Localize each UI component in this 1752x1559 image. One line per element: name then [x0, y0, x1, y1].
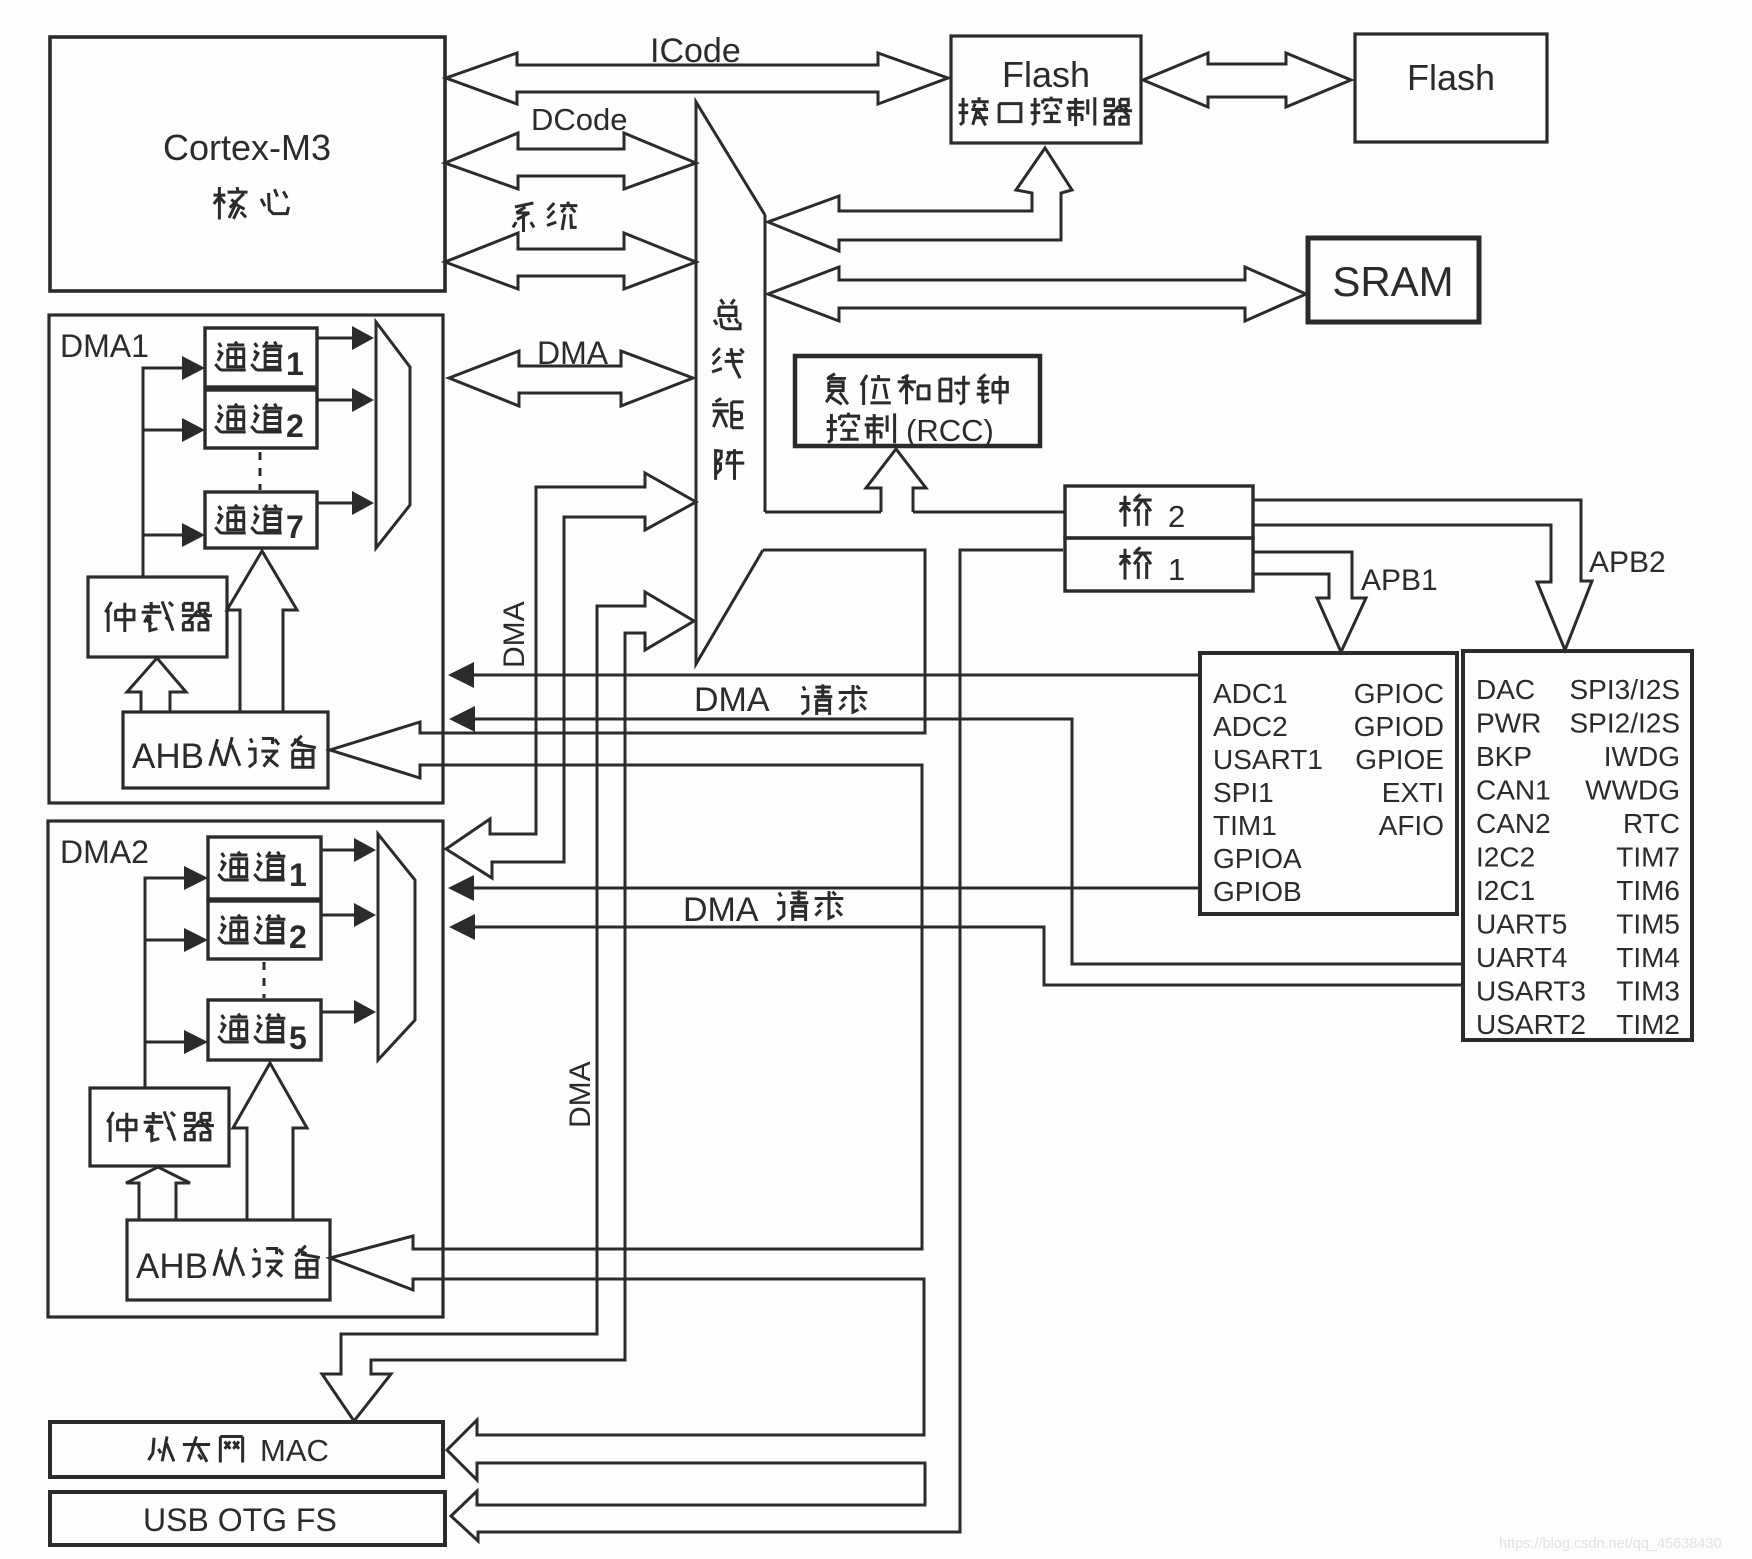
svg-text:UART5: UART5: [1476, 909, 1567, 940]
svg-text:DMA: DMA: [537, 335, 609, 371]
svg-text:USART2: USART2: [1476, 1009, 1586, 1040]
svg-text:Cortex-M3: Cortex-M3: [163, 127, 331, 168]
svg-text:AHB: AHB: [132, 737, 204, 776]
block DMA2 channel2: [208, 901, 321, 959]
svg-text:GPIOD: GPIOD: [1354, 711, 1444, 742]
block Ethernet MAC: [50, 1422, 443, 1477]
svg-text:DMA: DMA: [564, 1061, 597, 1128]
arrow to RCC: [866, 449, 926, 512]
bus arrow DCode: [445, 133, 696, 189]
wire channel7 to mux: [317, 502, 353, 505]
arrow DMA2 master to bus matrix: [446, 473, 696, 878]
svg-text:Flash: Flash: [1002, 54, 1090, 95]
wire AHB bus snake with AHB slave arrows: [330, 550, 1063, 1541]
svg-text:2: 2: [286, 408, 304, 444]
svg-text:DMA: DMA: [694, 681, 770, 719]
arrow bus matrix to Flash interface: [768, 148, 1072, 251]
svg-text:DAC: DAC: [1476, 674, 1535, 705]
svg-text:https://blog.csdn.net/qq_45638: https://blog.csdn.net/qq_45638430: [1499, 1536, 1722, 1552]
svg-text:TIM3: TIM3: [1616, 976, 1680, 1007]
label zongxianjuzhen vertical: [714, 299, 740, 328]
wire DMA2 channel2 to mux: [321, 914, 355, 917]
arrow Flash interface to Flash: [1143, 53, 1351, 107]
svg-text:GPIOC: GPIOC: [1354, 678, 1444, 709]
svg-text:DMA: DMA: [683, 891, 759, 929]
bus arrow system: [445, 233, 696, 289]
dashed line DMA1 channels: [259, 452, 262, 490]
arrow AHB1 to channel7: [227, 551, 297, 712]
wire DMA1 arbiter feed: [143, 368, 183, 577]
svg-text:TIM6: TIM6: [1616, 875, 1680, 906]
block DMA2: [48, 821, 443, 1317]
arrowhead to channel7: [182, 523, 205, 547]
svg-text:I2C1: I2C1: [1476, 875, 1535, 906]
svg-text:2: 2: [289, 919, 307, 955]
block DMA2 channel1: [208, 837, 321, 899]
svg-text:1: 1: [289, 857, 307, 893]
block SRAM: [1308, 238, 1479, 322]
wire bus channel top: [765, 511, 881, 514]
svg-text:SPI2/I2S: SPI2/I2S: [1569, 708, 1680, 739]
svg-text:PWR: PWR: [1476, 708, 1541, 739]
svg-text:USART1: USART1: [1213, 744, 1323, 775]
svg-text:ADC2: ADC2: [1213, 711, 1288, 742]
wire DMA2 arbiter feed: [145, 878, 185, 1088]
svg-text:BKP: BKP: [1476, 741, 1532, 772]
svg-text:SRAM: SRAM: [1332, 258, 1453, 305]
wire channel2 to mux: [317, 399, 353, 402]
dashed line DMA2 channels: [263, 962, 266, 998]
svg-text:7: 7: [286, 509, 304, 545]
block DMA1 AHB slave: [123, 712, 328, 788]
block bridge1: [1065, 538, 1253, 591]
svg-text:DCode: DCode: [531, 102, 628, 137]
block USB OTG FS: [50, 1492, 445, 1545]
svg-text:1: 1: [286, 346, 304, 382]
svg-text:DMA: DMA: [498, 601, 531, 668]
wire DMA2 channel1 to mux: [321, 849, 355, 852]
bus arrow DMA1 master: [449, 351, 693, 406]
arrow AHB1 to arbiter: [127, 658, 186, 712]
svg-text:I2C2: I2C2: [1476, 842, 1535, 873]
arrowhead to channel2: [182, 418, 205, 442]
arrow bus matrix to SRAM: [768, 267, 1306, 321]
block DMA1 channel1: [205, 328, 317, 387]
DMA2 mux: [378, 834, 415, 1060]
svg-text:(RCC): (RCC): [906, 413, 994, 448]
block DMA2 AHB slave: [127, 1220, 330, 1300]
label DMA vertical upper: [498, 601, 531, 668]
svg-text:DMA1: DMA1: [60, 328, 149, 364]
arrow AHB2 to channel5: [233, 1063, 307, 1220]
arrow bridge1 to APB1: [1252, 552, 1366, 652]
svg-text:ICode: ICode: [650, 32, 741, 70]
block DMA2 arbiter: [90, 1088, 229, 1166]
wire DMA2 request line 2: [470, 927, 1463, 985]
block APB1 peripherals: [1200, 653, 1457, 914]
svg-text:RTC: RTC: [1623, 808, 1680, 839]
svg-text:2: 2: [1168, 499, 1185, 534]
label xitong: [513, 202, 577, 232]
block bridge2: [1065, 486, 1253, 538]
svg-text:TIM1: TIM1: [1213, 810, 1277, 841]
svg-text:EXTI: EXTI: [1382, 777, 1444, 808]
svg-text:UART4: UART4: [1476, 942, 1567, 973]
svg-text:CAN1: CAN1: [1476, 775, 1551, 806]
block DMA1: [49, 315, 443, 803]
wire DMA1 request line 2: [470, 719, 1463, 964]
arrowhead to DMA2 channel5: [184, 1030, 208, 1054]
block APB2 peripherals: [1463, 651, 1692, 1040]
block DMA1 channel2: [205, 390, 317, 448]
svg-text:Flash: Flash: [1407, 57, 1495, 98]
arrowhead to DMA2 channel2: [184, 928, 208, 952]
svg-text:AFIO: AFIO: [1379, 810, 1444, 841]
svg-text:MAC: MAC: [260, 1433, 329, 1468]
svg-text:SPI3/I2S: SPI3/I2S: [1569, 674, 1680, 705]
svg-text:USART3: USART3: [1476, 976, 1586, 1007]
wire DMA2 request line 1: [470, 887, 1200, 890]
svg-text:APB2: APB2: [1589, 546, 1666, 579]
arrow bridge2 to APB2: [1253, 500, 1592, 650]
wire channel1 to mux: [317, 337, 353, 340]
svg-text:TIM7: TIM7: [1616, 842, 1680, 873]
block DMA1 channel7: [205, 492, 317, 548]
wire DMA1 request line 1: [470, 674, 1200, 677]
DMA1 mux: [376, 322, 410, 548]
block DMA1 arbiter: [88, 577, 227, 657]
svg-text:WWDG: WWDG: [1585, 775, 1680, 806]
svg-text:AHB: AHB: [136, 1247, 208, 1286]
arrow DMA to bus matrix lower and Ethernet feed: [322, 592, 694, 1421]
svg-text:SPI1: SPI1: [1213, 777, 1274, 808]
svg-text:GPIOB: GPIOB: [1213, 876, 1302, 907]
bus matrix band: [696, 102, 765, 664]
block RCC reset and clock control: [795, 356, 1040, 446]
svg-text:USB OTG FS: USB OTG FS: [143, 1502, 337, 1538]
arrowhead to channel1: [182, 356, 205, 380]
arrowhead to DMA2 channel1: [184, 866, 208, 890]
svg-text:APB1: APB1: [1361, 564, 1438, 597]
svg-text:DMA2: DMA2: [60, 834, 149, 870]
svg-text:GPIOA: GPIOA: [1213, 843, 1302, 874]
svg-text:IWDG: IWDG: [1604, 741, 1680, 772]
svg-text:CAN2: CAN2: [1476, 808, 1551, 839]
svg-text:TIM2: TIM2: [1616, 1009, 1680, 1040]
block Flash interface controller: [951, 36, 1141, 143]
svg-text:TIM4: TIM4: [1616, 942, 1680, 973]
svg-text:5: 5: [289, 1020, 307, 1056]
block DMA2 channel5: [208, 1000, 321, 1060]
block Cortex-M3 core: [50, 37, 445, 291]
bus arrow ICode: [446, 53, 948, 104]
svg-text:TIM5: TIM5: [1616, 909, 1680, 940]
svg-text:GPIOE: GPIOE: [1355, 744, 1444, 775]
svg-text:ADC1: ADC1: [1213, 678, 1288, 709]
svg-text:1: 1: [1168, 552, 1185, 587]
wire DMA2 channel5 to mux: [321, 1011, 355, 1014]
label DMA vertical lower: [564, 1061, 597, 1128]
block Flash: [1355, 34, 1547, 142]
arrow AHB2 to arbiter: [126, 1167, 190, 1220]
